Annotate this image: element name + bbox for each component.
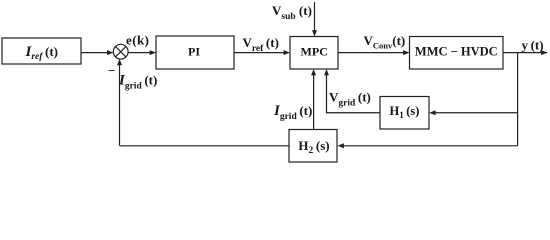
svg-text:−: −: [108, 63, 115, 78]
svg-text:H1 (s): H1 (s): [390, 104, 420, 120]
svg-text:y (t): y (t): [522, 37, 544, 52]
svg-text:MPC: MPC: [301, 44, 328, 58]
svg-text:PI: PI: [188, 44, 200, 58]
svg-text:e(k): e(k): [126, 32, 149, 47]
svg-text:MMC − HVDC: MMC − HVDC: [415, 44, 498, 58]
